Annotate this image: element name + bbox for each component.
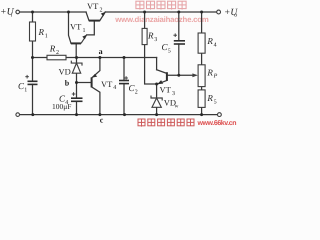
wire VT1 emitter to VT2 base link: [87, 21, 95, 35]
resistor R3: [142, 28, 147, 44]
wire VD bottom lead to node b: [76, 73, 78, 82]
svg-text:c: c: [100, 116, 104, 125]
svg-text:5: 5: [168, 48, 171, 54]
resistor R5: [198, 90, 205, 108]
capacitor C1 plus sign: [25, 75, 29, 79]
wire VD top lead: [76, 58, 78, 64]
svg-text:VT: VT: [70, 22, 82, 32]
svg-text:3: 3: [154, 37, 157, 43]
svg-text:3: 3: [172, 91, 175, 97]
wire VT3 emitter diagonal: [158, 80, 167, 83]
wire C2 bottom lead: [123, 84, 125, 115]
transistor VT2 emitter arrowhead: [101, 12, 106, 17]
junction VT3 emitter VDw R3: [155, 83, 158, 86]
junction R3 top rail: [143, 11, 146, 14]
svg-text:4: 4: [113, 85, 116, 91]
transistor VT4 base bar: [91, 77, 93, 87]
wire node b to VT4 base: [77, 82, 91, 84]
wire node b to C4: [76, 83, 78, 99]
svg-text:R: R: [147, 31, 154, 41]
svg-text:b: b: [65, 79, 70, 88]
wire VT1 base lead: [75, 43, 77, 57]
svg-text:1: 1: [45, 33, 48, 39]
wire VT4 emitter to node a: [92, 58, 100, 79]
svg-text:VT: VT: [101, 79, 113, 89]
capacitor C4 plates: [71, 98, 83, 101]
wire mid horizontal R2 to VT3 corner: [66, 57, 157, 59]
transistor VT1 emitter with arrow: [81, 35, 87, 44]
svg-text:2: 2: [135, 89, 138, 95]
capacitor C2 plus sign: [124, 76, 128, 80]
wire C2 top lead: [123, 58, 125, 81]
wire C5 top lead: [178, 12, 180, 41]
svg-text:R: R: [38, 27, 45, 37]
junction C5 top rail: [177, 11, 180, 14]
junction R1 R2 C1 node: [31, 56, 34, 59]
wire corner down to VT3 collector: [156, 58, 158, 70]
svg-text:2: 2: [56, 50, 59, 56]
potentiometer Rp body: [198, 65, 205, 87]
watermark bottom chinese 中国电子制作: [138, 119, 194, 127]
diode VD (zener): [71, 61, 82, 74]
wire top rail right segment: [105, 11, 216, 13]
wire C5 bottom lead to wiper: [178, 44, 180, 75]
resistor R2: [47, 55, 66, 60]
wire VT3 base to Rp wiper: [167, 74, 196, 76]
wire VT3 collector diagonal: [157, 70, 167, 74]
transistor VT3 emitter arrowhead: [157, 80, 163, 84]
svg-text:1: 1: [83, 28, 86, 34]
wire mid horizontal R1 to R2: [33, 57, 48, 59]
svg-text:4: 4: [214, 42, 217, 48]
wire right column top lead: [201, 12, 203, 33]
wire R5 bottom lead: [201, 107, 203, 114]
svg-text:w: w: [175, 103, 179, 109]
watermark top chinese 电子爱好者: [136, 1, 186, 9]
svg-text:a: a: [99, 47, 103, 56]
terminal +Uo: [217, 10, 221, 14]
capacitor C4 plus sign: [72, 92, 76, 96]
svg-text:R: R: [49, 44, 56, 54]
wire R4 to Rp: [201, 53, 203, 65]
capacitor C1 plates: [28, 81, 38, 84]
transistor VT4 emitter arrowhead (PNP, points to bar): [92, 74, 97, 78]
svg-text:www.66kv.cn: www.66kv.cn: [197, 119, 237, 127]
junction R4 top rail: [200, 11, 203, 14]
terminal bottom-left: [16, 113, 20, 117]
wire C4 bottom lead: [76, 101, 78, 114]
wire VT2 collector diagonal: [86, 12, 89, 21]
node b junction: [75, 81, 78, 84]
node c junction VT4 collector bottom rail: [98, 113, 101, 116]
svg-text:VT: VT: [160, 85, 172, 95]
node a junction: [98, 56, 101, 59]
zener VDw: [151, 96, 162, 108]
junction VDw bottom rail: [155, 113, 158, 116]
wire VT1 collector vertical: [69, 12, 72, 43]
wire R1 bottom lead to C1: [32, 41, 34, 81]
resistor R4: [198, 33, 205, 53]
transistor VT2 base bar: [89, 20, 100, 22]
svg-text:www.dianzaiaihaozhe.com: www.dianzaiaihaozhe.com: [114, 15, 209, 24]
svg-text:+U: +U: [0, 6, 15, 17]
wire bottom common rail: [20, 114, 218, 116]
wire C1 bottom lead: [32, 84, 34, 114]
junction C4 bottom rail: [75, 113, 78, 116]
capacitor C5 plus sign: [173, 33, 177, 37]
junction VT1 collector rail: [67, 11, 70, 14]
wire VT4 collector to bottom rail: [92, 87, 100, 115]
capacitor C2 plates: [119, 81, 129, 84]
junction C5 bottom on wiper line: [177, 74, 180, 77]
terminal bottom-right: [218, 113, 222, 117]
wire VT2 emitter diagonal: [100, 12, 106, 21]
svg-text:5: 5: [214, 99, 217, 105]
junction R1 top rail: [31, 11, 34, 14]
svg-text:R: R: [206, 93, 213, 103]
junction VT1 base VD node: [75, 56, 78, 59]
svg-text:2: 2: [100, 8, 103, 14]
transistor VT3 base bar: [166, 72, 168, 81]
terminal +Ui: [16, 10, 20, 14]
wire R3 bottom lead to zener node: [145, 45, 157, 84]
svg-text:R: R: [206, 67, 213, 77]
svg-text:P: P: [213, 74, 218, 80]
resistor R1: [30, 22, 36, 41]
potentiometer Rp wiper arrowhead: [192, 73, 197, 77]
junction C2 top: [123, 56, 126, 59]
junction C2 bottom rail: [123, 113, 126, 116]
transistor VT1 base bar: [71, 42, 81, 44]
junction R5 bottom rail: [200, 113, 203, 116]
wire R3 top lead: [144, 12, 146, 28]
wire VDw bottom lead: [156, 107, 158, 114]
junction C1 bottom rail: [31, 113, 34, 116]
svg-text:VD: VD: [59, 67, 71, 77]
svg-text:100μF: 100μF: [52, 102, 71, 111]
svg-text:o: o: [234, 13, 237, 19]
wire VDw top lead: [156, 84, 158, 98]
svg-text:1: 1: [24, 87, 27, 93]
capacitor C5 plates: [174, 41, 185, 44]
wire Rp to R5: [201, 87, 203, 90]
svg-text:R: R: [206, 36, 213, 46]
wire R1 top lead: [32, 12, 34, 22]
wire top rail left segment: [20, 11, 86, 13]
svg-text:VT: VT: [87, 1, 99, 11]
